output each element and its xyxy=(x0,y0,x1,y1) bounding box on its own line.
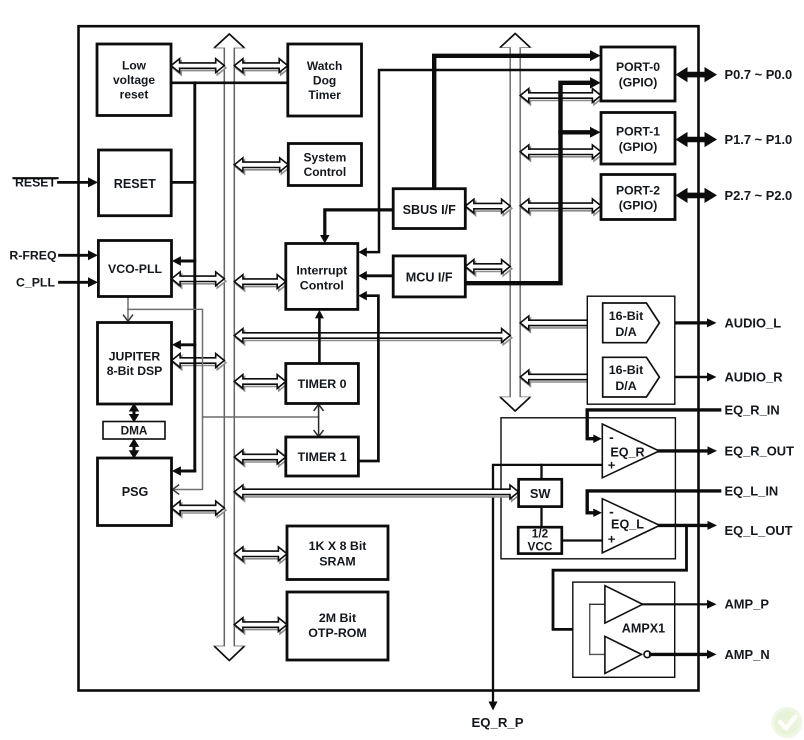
wire AMPX1 input connector xyxy=(590,604,605,654)
label AMPX1 xyxy=(622,621,665,635)
buffer AMPX1 top xyxy=(605,586,643,623)
pin EQ_L_OUT xyxy=(660,521,793,538)
wire MCU I/F to Interrupt xyxy=(358,271,393,281)
svg-text:+: + xyxy=(608,458,616,473)
svg-text:OTP-ROM: OTP-ROM xyxy=(308,626,367,640)
block Watch Dog Timer xyxy=(288,44,362,116)
svg-text:AMPX1: AMPX1 xyxy=(622,621,665,635)
EQ block container xyxy=(501,418,675,559)
pin EQ_R_IN xyxy=(587,402,779,443)
block 2M Bit OTP-ROM xyxy=(287,592,388,660)
wire timer tap to PSG line xyxy=(203,416,319,418)
svg-text:RESET: RESET xyxy=(114,177,156,191)
svg-text:P1.7 ~ P1.0: P1.7 ~ P1.0 xyxy=(725,132,793,147)
pin P1.7~P1.0 xyxy=(676,132,793,147)
svg-text:EQ_L: EQ_L xyxy=(611,518,644,532)
block VCO-PLL xyxy=(98,241,171,297)
pin R-FREQ input xyxy=(9,249,98,263)
svg-text:Watch: Watch xyxy=(307,59,343,73)
open arrow PSG-bus1 xyxy=(172,501,226,517)
block 16-Bit D/A left xyxy=(603,303,660,343)
svg-text:P2.7 ~ P2.0: P2.7 ~ P2.0 xyxy=(725,188,793,203)
open arrow bus2-PORT0 xyxy=(520,89,602,105)
wire RESET box output xyxy=(171,181,195,184)
svg-text:PORT-1: PORT-1 xyxy=(616,124,660,138)
wire half VCC to EQ_L plus xyxy=(562,539,603,541)
svg-text:EQ_R_OUT: EQ_R_OUT xyxy=(725,443,795,458)
svg-text:SBUS I/F: SBUS I/F xyxy=(403,203,456,217)
svg-text:Timer: Timer xyxy=(308,88,341,102)
svg-text:AUDIO_R: AUDIO_R xyxy=(725,369,784,384)
svg-text:voltage: voltage xyxy=(113,73,155,87)
svg-text:TIMER 1: TIMER 1 xyxy=(298,450,347,464)
svg-text:R-FREQ: R-FREQ xyxy=(9,249,57,263)
svg-text:TIMER 0: TIMER 0 xyxy=(298,377,347,391)
block PORT-1 GPIO xyxy=(601,113,675,165)
pin P2.7~P2.0 xyxy=(676,188,793,203)
block DMA xyxy=(103,422,165,440)
svg-text:SW: SW xyxy=(530,486,552,501)
svg-text:VCC: VCC xyxy=(528,540,553,554)
wire VCO-PLL branch to PSG thin xyxy=(128,309,203,494)
block PSG xyxy=(98,458,172,526)
open arrow LVR-bus1 xyxy=(171,59,226,75)
open arrow bus1-SW long xyxy=(234,485,520,501)
open arrow bus1-WatchDog xyxy=(234,59,289,75)
svg-text:+: + xyxy=(608,532,616,547)
open arrow SBUS-bus2 xyxy=(465,199,512,215)
open arrow bus1-TIMER0 xyxy=(234,375,287,391)
svg-text:-: - xyxy=(609,504,614,520)
open arrow bus2-PORT2 xyxy=(520,199,602,215)
svg-text:DMA: DMA xyxy=(121,424,148,438)
svg-text:Control: Control xyxy=(304,165,347,179)
pin AUDIO_L xyxy=(659,315,781,330)
open arrow bus1-bus2 long xyxy=(234,329,512,345)
op-amp EQ_R xyxy=(602,424,659,478)
pin P0.7~P0.0 xyxy=(676,67,793,82)
wire SBUS to PORT0 xyxy=(434,50,600,189)
open arrow bus1-Interrupt xyxy=(234,275,287,291)
block 1K X 8 Bit SRAM xyxy=(287,526,388,580)
wire reset branch to PSG xyxy=(172,466,195,476)
svg-text:Interrupt: Interrupt xyxy=(296,264,347,278)
block half VCC xyxy=(518,527,562,554)
bus 1 vertical system bus xyxy=(215,34,245,661)
svg-text:EQ_L_OUT: EQ_L_OUT xyxy=(725,523,793,538)
open arrow bus1-TIMER1 xyxy=(234,450,287,466)
chip boundary frame xyxy=(79,26,699,690)
svg-text:D/A: D/A xyxy=(615,379,636,393)
block MCU I/F xyxy=(393,256,465,297)
svg-text:1K X 8 Bit: 1K X 8 Bit xyxy=(309,539,367,553)
svg-text:-: - xyxy=(609,429,614,445)
svg-text:2M Bit: 2M Bit xyxy=(319,611,356,625)
block PORT-2 GPIO xyxy=(601,175,675,220)
svg-text:EQ_R_P: EQ_R_P xyxy=(471,715,523,730)
svg-text:EQ_R: EQ_R xyxy=(610,446,644,460)
open arrow JUPITER-bus1 xyxy=(172,354,226,370)
block SBUS I/F xyxy=(393,189,465,229)
svg-text:Dog: Dog xyxy=(313,73,336,87)
wire SW to EQ_R node xyxy=(540,465,542,479)
block TIMER 0 xyxy=(286,364,359,404)
pin C_PLL input xyxy=(16,276,98,290)
pin AUDIO_R xyxy=(659,369,783,384)
open arrow MCU-bus2 xyxy=(465,260,512,276)
pin EQ_L_IN xyxy=(587,483,778,517)
open arrow bus1-SystemCtl xyxy=(234,158,290,174)
svg-text:(GPIO): (GPIO) xyxy=(619,199,658,213)
block D/A container xyxy=(587,296,675,404)
block System Control xyxy=(288,144,361,186)
wire MCU to PORT0 PORT1 xyxy=(465,77,600,283)
pin AMP_N xyxy=(651,647,770,662)
block AMPX1 container xyxy=(573,582,675,677)
svg-text:C_PLL: C_PLL xyxy=(16,276,55,290)
block 16-Bit D/A right xyxy=(603,357,660,397)
wire LVR to WatchDog xyxy=(171,81,288,84)
wire JUPITER-DMA link xyxy=(129,403,140,423)
wire TIMER1 to Interrupt loop xyxy=(358,291,378,461)
svg-text:16-Bit: 16-Bit xyxy=(609,363,643,377)
svg-text:EQ_R_IN: EQ_R_IN xyxy=(725,402,780,417)
svg-text:VCO-PLL: VCO-PLL xyxy=(108,262,162,276)
svg-text:Control: Control xyxy=(300,279,344,293)
wire VCO-PLL to JUPITER xyxy=(124,297,133,322)
open arrow bus1-OTPROM xyxy=(234,618,288,634)
watermark check circle xyxy=(772,707,803,738)
op-amp EQ_L xyxy=(602,499,659,553)
open arrow bus2-PORT1 xyxy=(520,145,602,161)
svg-text:AUDIO_L: AUDIO_L xyxy=(725,315,782,330)
wire reset branch to VCO-PLL xyxy=(172,256,195,266)
wire reset branch to JUPITER xyxy=(172,340,195,350)
wire SBUS I/F to Interrupt xyxy=(320,210,393,244)
block Low voltage reset xyxy=(97,44,171,116)
svg-text:AMP_P: AMP_P xyxy=(725,597,770,612)
svg-text:MCU I/F: MCU I/F xyxy=(406,270,453,284)
svg-text:System: System xyxy=(304,151,347,165)
wire reset distribution vertical xyxy=(193,83,196,471)
bus 2 vertical peripheral bus xyxy=(500,34,530,412)
pin EQ_R_OUT xyxy=(659,443,794,458)
wire DMA-PSG link xyxy=(129,438,140,458)
pin RESET input xyxy=(14,176,99,190)
wire EQ_R plus node and EQ_R_P drop xyxy=(489,465,603,711)
svg-text:PORT-0: PORT-0 xyxy=(616,60,660,74)
node EQ_R_P label xyxy=(471,715,523,730)
svg-text:EQ_L_IN: EQ_L_IN xyxy=(725,483,779,498)
block Interrupt Control xyxy=(286,244,358,310)
wire TIMER0 to Interrupt xyxy=(315,310,324,364)
svg-text:PSG: PSG xyxy=(122,485,149,499)
svg-text:SRAM: SRAM xyxy=(319,555,355,569)
wire EQ_L_OUT to AMPX1 xyxy=(553,525,687,629)
svg-text:P0.7 ~ P0.0: P0.7 ~ P0.0 xyxy=(725,67,793,82)
wire PORT0 to Interrupt xyxy=(358,70,601,257)
svg-text:1/2: 1/2 xyxy=(532,527,549,541)
block SW switch xyxy=(519,479,562,506)
block RESET xyxy=(99,150,172,216)
svg-text:8-Bit DSP: 8-Bit DSP xyxy=(107,364,163,378)
open arrow bus2-DA2 xyxy=(520,370,604,386)
buffer AMPX1 bottom inverting xyxy=(605,636,651,673)
pin AMP_P xyxy=(643,597,770,612)
svg-text:AMP_N: AMP_N xyxy=(725,647,770,662)
open arrow VCOPLL-bus1 xyxy=(172,272,226,288)
svg-text:16-Bit: 16-Bit xyxy=(609,309,643,323)
block PORT-0 GPIO xyxy=(601,47,675,101)
svg-text:D/A: D/A xyxy=(615,325,636,339)
svg-text:reset: reset xyxy=(120,88,149,102)
svg-text:(GPIO): (GPIO) xyxy=(619,75,658,89)
svg-text:Low: Low xyxy=(122,59,147,73)
svg-text:JUPITER: JUPITER xyxy=(109,349,161,363)
block JUPITER 8-Bit DSP xyxy=(98,323,172,405)
wire TIMER0-TIMER1 link xyxy=(314,404,323,436)
svg-text:(GPIO): (GPIO) xyxy=(619,140,658,154)
wire SW to half VCC xyxy=(540,507,542,528)
open arrow bus1-SRAM xyxy=(234,547,288,563)
open arrow bus2-DA1 xyxy=(520,316,604,332)
svg-text:PORT-2: PORT-2 xyxy=(616,183,660,197)
block TIMER 1 xyxy=(286,437,359,476)
